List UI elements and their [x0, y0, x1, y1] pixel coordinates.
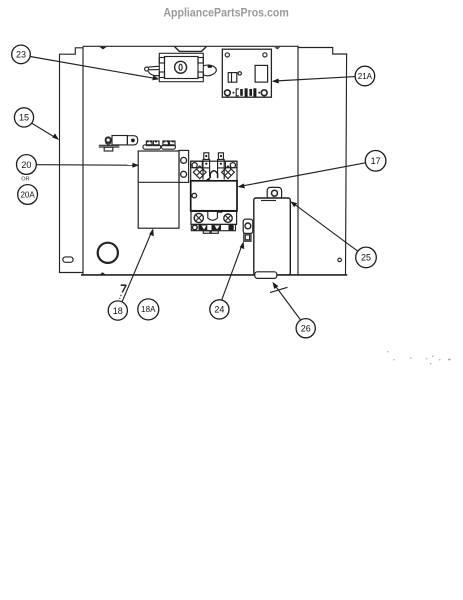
panel left flap outline	[60, 48, 84, 273]
capacitor 20 body	[138, 151, 179, 228]
svg-text:18A: 18A	[141, 305, 156, 314]
leader 26	[270, 282, 301, 320]
contactor 17 top left terminal tab	[203, 153, 210, 180]
limit switch 23 center button	[175, 61, 187, 73]
contactor 17 bottom terminal block	[191, 210, 237, 225]
panel main body outline	[83, 46, 298, 274]
control board 21A relay block	[255, 65, 268, 82]
panel right flap outline	[298, 48, 347, 276]
contactor 17 main body	[191, 181, 237, 211]
limit switch 23 left ear	[145, 66, 160, 76]
callout 20	[17, 155, 37, 175]
panel bottom-edge tab mark	[100, 272, 106, 274]
limit switch 23 body	[159, 53, 203, 81]
svg-text:24: 24	[214, 305, 224, 315]
scan specks	[387, 351, 451, 364]
transformer 25 bottom tab	[255, 272, 277, 279]
leader 24	[222, 241, 245, 299]
callout 26	[296, 319, 315, 338]
svg-text:15: 15	[19, 113, 29, 123]
svg-text:OR: OR	[21, 177, 29, 183]
leader 17	[237, 163, 365, 189]
panel slot hole lower-left	[63, 257, 73, 262]
transformer 25 top mounting tab	[267, 187, 281, 199]
control board 21A outline	[222, 49, 271, 97]
bracket 24	[243, 219, 253, 241]
svg-text:25: 25	[361, 253, 371, 263]
panel small hole right	[338, 258, 342, 262]
contactor 17 top terminal block	[191, 161, 237, 181]
leader 21A	[272, 77, 355, 84]
panel top-edge trapezoid notch above switch	[175, 47, 207, 52]
svg-text:17: 17	[371, 156, 381, 166]
control board 21A mounting hole left	[225, 53, 229, 57]
leader 20	[36, 163, 139, 168]
leader 18	[122, 228, 154, 301]
capacitor 20 mounting bracket	[179, 150, 189, 182]
callout 18	[108, 301, 127, 320]
callout 25	[356, 247, 377, 268]
leader 15	[32, 123, 59, 140]
callout 17	[365, 151, 386, 172]
panel top-edge notch tab mark left	[100, 47, 107, 50]
capacitor clip bracket	[99, 136, 138, 152]
leader 25	[290, 201, 358, 251]
transformer 25 body	[254, 198, 290, 275]
label 7	[120, 285, 127, 299]
svg-text:18: 18	[113, 306, 123, 316]
svg-text:20: 20	[21, 160, 31, 170]
callout 21A	[355, 66, 375, 86]
leader 23	[30, 57, 159, 81]
svg-text:26: 26	[301, 324, 311, 334]
svg-text:AppliancePartsPros.com: AppliancePartsPros.com	[163, 7, 288, 19]
callout 18A	[138, 299, 159, 320]
svg-text:21A: 21A	[358, 72, 373, 81]
contactor 17 top right terminal tab	[218, 153, 225, 180]
svg-text:20A: 20A	[20, 190, 35, 199]
control board 21A small component	[228, 72, 241, 82]
contactor 17 mounting feet	[191, 224, 235, 233]
svg-text:23: 23	[16, 50, 26, 60]
panel top-edge notch tab mark right	[274, 47, 280, 49]
callout 15	[14, 108, 33, 127]
limit switch 23 right ear	[203, 65, 216, 76]
callout 24	[210, 300, 229, 319]
control board 21A mounting hole right	[263, 53, 267, 57]
capacitor 20 terminals	[143, 141, 176, 150]
callout 20A	[18, 185, 38, 205]
panel round hole	[98, 243, 118, 263]
callout 23	[12, 45, 31, 64]
control board 21A terminal row	[225, 88, 268, 96]
